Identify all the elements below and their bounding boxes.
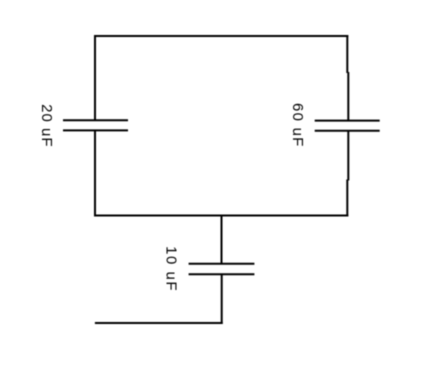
wire right lower (C2 lead to bottom node) (346, 180, 348, 217)
capacitor C1 20 uF (bottom plate) (63, 129, 128, 131)
capacitor C2 60 uF (top plate) (315, 120, 380, 122)
capacitor C2 60 uF (bottom plate) (315, 130, 380, 132)
capacitor C1 20 uF (top plate) (63, 119, 128, 121)
wire right upper (top node down to C2 lead) (346, 35, 348, 73)
wire right upper lead stub of C2 (347, 72, 349, 121)
wire left upper (top node to C1 top plate) (94, 35, 96, 120)
wire left lower (C1 bottom plate to bottom node) (94, 130, 96, 216)
svg-text:10 uF: 10 uF (162, 246, 179, 290)
wire right lower lead stub of C2 (347, 131, 349, 181)
wire middle upper (bottom node to C3 top plate) (221, 216, 223, 264)
wire bottom terminal lead (corner going left) (95, 322, 223, 324)
wire middle lower (C3 bottom plate to bottom terminal corner) (221, 274, 223, 324)
capacitor C3 10 uF (top plate) (189, 263, 255, 265)
wire bottom (node between C1, C2 and C3) (94, 215, 348, 217)
svg-text:60 uF: 60 uF (289, 103, 306, 146)
wire top (node between C1 and C2) (94, 35, 348, 37)
capacitor C3 10 uF (bottom plate) (189, 273, 255, 275)
svg-text:20 uF: 20 uF (38, 104, 55, 146)
